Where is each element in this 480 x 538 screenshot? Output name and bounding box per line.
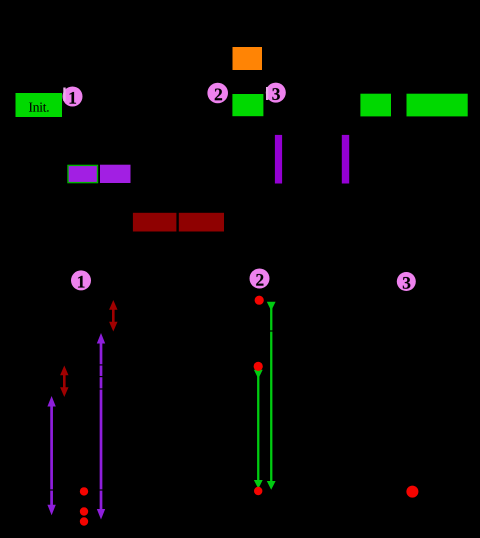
red dot (84,511) (80, 507, 88, 515)
purple left double arrow (47, 396, 55, 515)
orange task box (233, 47, 263, 70)
red dot (412,491) (406, 486, 418, 498)
dark red box 1 (133, 213, 177, 232)
green box right A (360, 94, 391, 117)
red dot (84,521) (80, 517, 88, 525)
green arrow right (down) (267, 302, 276, 490)
red dot (259,300) (255, 296, 264, 305)
red dot (258,366) (254, 362, 263, 371)
green arrow left (down) (254, 370, 263, 489)
dark red box 2 (179, 213, 224, 232)
tick marker at circle 1 (63, 88, 65, 102)
purple h-box 2 (100, 165, 131, 183)
dark red double arrow A (109, 300, 117, 332)
node circle 3 (row 2) (397, 272, 416, 291)
tick marker at circle 3 (266, 87, 268, 100)
node circle 2 (row 2) (250, 269, 270, 289)
green box middle (232, 94, 263, 116)
node circle 1 (row 2) (71, 270, 91, 290)
red dot (258,491) (254, 487, 262, 495)
node circle 3 (top) (266, 83, 286, 103)
green box right B (407, 94, 468, 117)
purple vertical bar 2 (342, 135, 349, 184)
black grid nicks over arrows (50, 330, 273, 490)
purple h-box 1 (green outline) (68, 165, 98, 182)
dark red double arrow B (60, 366, 68, 398)
node circle 2 (top) (207, 83, 228, 104)
green box Init. (16, 93, 63, 117)
label Init. (29, 103, 33, 112)
purple long double arrow (97, 333, 105, 520)
red dot (84,491) (80, 487, 88, 495)
node circle 1 (top) (63, 87, 83, 107)
purple vertical bar 1 (275, 135, 282, 184)
